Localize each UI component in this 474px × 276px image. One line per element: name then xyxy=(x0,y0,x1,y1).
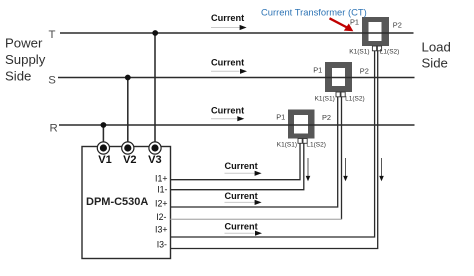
svg-text:I3+: I3+ xyxy=(155,224,167,234)
svg-text:I1-: I1- xyxy=(157,184,167,194)
svg-text:I3-: I3- xyxy=(157,239,167,249)
svg-text:Power: Power xyxy=(5,35,43,50)
svg-text:P2: P2 xyxy=(360,67,369,76)
svg-text:DPM-C530A: DPM-C530A xyxy=(86,196,148,208)
svg-text:Current Transformer (CT): Current Transformer (CT) xyxy=(261,6,367,17)
svg-text:V3: V3 xyxy=(148,154,161,166)
svg-text:Current: Current xyxy=(225,191,258,201)
svg-text:Supply: Supply xyxy=(5,52,46,67)
svg-text:Side: Side xyxy=(5,68,31,83)
svg-text:I2+: I2+ xyxy=(155,199,167,209)
svg-text:S: S xyxy=(48,74,56,86)
svg-text:Load: Load xyxy=(422,40,451,55)
svg-text:L1(S2): L1(S2) xyxy=(380,49,400,56)
svg-text:K1(S1): K1(S1) xyxy=(349,49,369,56)
svg-text:Current: Current xyxy=(211,58,244,68)
svg-text:L1(S2): L1(S2) xyxy=(345,95,365,102)
svg-text:L1(S2): L1(S2) xyxy=(306,141,326,148)
svg-text:Current: Current xyxy=(225,221,258,231)
svg-text:T: T xyxy=(49,29,56,41)
svg-text:I2-: I2- xyxy=(156,212,166,222)
svg-text:I1+: I1+ xyxy=(155,173,167,183)
svg-text:P2: P2 xyxy=(393,21,402,30)
svg-text:Current: Current xyxy=(211,105,244,115)
svg-text:P1: P1 xyxy=(350,17,359,26)
svg-text:V2: V2 xyxy=(123,154,136,166)
svg-text:K1(S1): K1(S1) xyxy=(315,95,335,102)
svg-text:Current: Current xyxy=(225,161,258,171)
svg-text:R: R xyxy=(49,122,57,134)
svg-text:P1: P1 xyxy=(276,113,285,122)
svg-text:P2: P2 xyxy=(322,113,331,122)
svg-text:V1: V1 xyxy=(98,154,111,166)
svg-text:K1(S1): K1(S1) xyxy=(277,141,297,148)
svg-text:Side: Side xyxy=(422,56,448,71)
svg-text:P1: P1 xyxy=(313,66,322,75)
svg-text:Current: Current xyxy=(211,13,244,23)
